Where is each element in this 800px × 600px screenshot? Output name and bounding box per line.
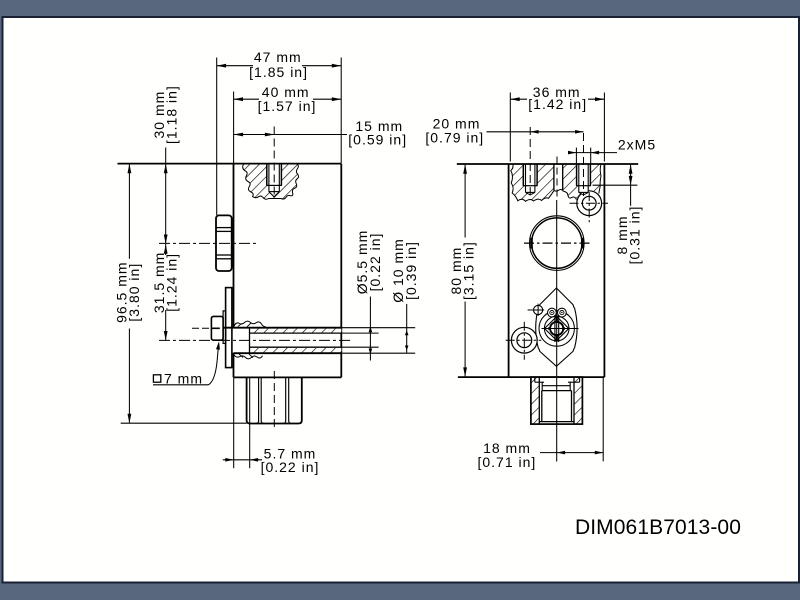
tube bore lines <box>250 333 379 347</box>
small locating hole on upper-left edge <box>528 304 545 316</box>
body outline (right view) <box>457 164 638 377</box>
dimension 36 mm <box>510 97 604 101</box>
svg-text:[0.71 in]: [0.71 in] <box>477 454 536 470</box>
large bore circle with chamfer <box>524 216 591 271</box>
tube wall hatch bands <box>250 329 342 333</box>
central boss circles <box>539 308 579 346</box>
extension lines for 36 mm <box>510 93 604 162</box>
dimension lines Ø5.5 / Ø10 (vertical, right of tube) <box>369 297 409 361</box>
svg-text:[1.24 in]: [1.24 in] <box>163 253 179 312</box>
bottom spigot (right view) <box>531 377 583 424</box>
dimension 31.5 mm (vertical) <box>164 244 168 341</box>
svg-text:[1.57 in]: [1.57 in] <box>258 98 317 114</box>
dimension 15 mm <box>234 133 347 137</box>
svg-text:[0.79 in]: [0.79 in] <box>425 130 484 146</box>
dimension 8 mm (vertical right) <box>593 164 638 206</box>
svg-text:[1.18 in]: [1.18 in] <box>163 85 179 144</box>
svg-text:[3.80 in]: [3.80 in] <box>126 263 142 322</box>
dimension 40 mm <box>234 97 342 101</box>
hex nut on left side of body <box>216 215 232 271</box>
dimension 96.5 mm (vertical) <box>121 164 247 423</box>
bolt axis centerline <box>192 327 211 329</box>
svg-text:[0.31 in]: [0.31 in] <box>627 206 643 265</box>
left threaded hole (right view) <box>523 127 538 196</box>
square flange plate (edge view) <box>226 288 232 368</box>
nut centerline <box>159 242 257 244</box>
middle slot at top <box>554 164 563 191</box>
diamond mounting pad <box>536 288 577 366</box>
tube centerline <box>159 339 351 341</box>
svg-text:DIM061B7013-00: DIM061B7013-00 <box>575 516 741 539</box>
lower-left bolt hole <box>506 322 542 360</box>
hatch blob around top threaded hole <box>243 164 299 199</box>
svg-text:[0.22 in]: [0.22 in] <box>261 459 320 475</box>
threaded hole M (top, left view): white core over hatch <box>266 164 282 197</box>
washer <box>223 311 226 344</box>
bottom spigot (left view) <box>247 377 302 423</box>
leader and label "square 7 mm" <box>153 341 220 385</box>
rotated dimension texts <box>113 85 642 323</box>
svg-text:[3.15 in]: [3.15 in] <box>460 241 476 300</box>
hex bolt head <box>211 316 223 340</box>
counterbore shoulder <box>249 329 251 353</box>
main vertical centerline (right view) <box>556 157 558 462</box>
body outline (left view) <box>118 164 342 378</box>
tube outer bottom line <box>234 352 416 354</box>
dimension 80 mm (vertical left) <box>463 164 467 376</box>
top hatch region (broken-out section) <box>511 165 601 202</box>
dimension 47 mm <box>217 64 342 68</box>
extension lines top <box>217 58 342 216</box>
svg-text:[1.42 in]: [1.42 in] <box>528 96 587 112</box>
svg-text:7 mm: 7 mm <box>164 370 203 386</box>
dimension 18 mm (bottom) <box>540 378 603 461</box>
svg-text:[1.85 in]: [1.85 in] <box>249 64 308 80</box>
centerline of top threaded hole <box>273 127 275 200</box>
spigot centerline <box>273 371 275 430</box>
right threaded hole (right view) <box>576 133 591 196</box>
upper-right bolt hole circles <box>570 191 609 223</box>
dimension 2xM5 leader <box>568 148 617 164</box>
svg-text:2xM5: 2xM5 <box>618 136 656 152</box>
broken-out wavy edge above tube <box>234 321 266 327</box>
svg-text:47 mm: 47 mm <box>254 49 302 65</box>
svg-text:[0.59 in]: [0.59 in] <box>348 131 407 147</box>
dimension 30 mm (vertical) <box>164 148 168 244</box>
dimension 5.7 mm (bottom) <box>223 378 262 468</box>
svg-text:[0.22 in]: [0.22 in] <box>367 233 383 292</box>
broken-out wavy edge below tube <box>234 355 263 359</box>
dimension 20 mm <box>487 130 584 134</box>
svg-text:[0.39 in]: [0.39 in] <box>403 241 419 300</box>
tube outer top line <box>223 327 415 329</box>
